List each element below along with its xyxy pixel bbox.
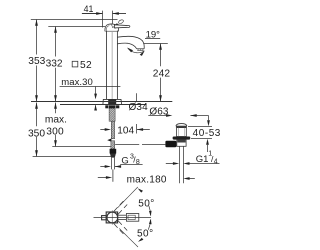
centerline bbox=[94, 217, 152, 219]
svg-text:40-53: 40-53 bbox=[193, 128, 221, 139]
upper 50 ray bbox=[118, 187, 138, 208]
svg-text:300: 300 bbox=[46, 126, 64, 137]
drain depth arrow bbox=[189, 178, 195, 180]
svg-text:19°: 19° bbox=[146, 29, 161, 40]
svg-text:G1: G1 bbox=[196, 154, 209, 165]
threaded shank bbox=[109, 108, 115, 121]
handle stub bbox=[102, 216, 107, 220]
svg-text:max.: max. bbox=[45, 115, 67, 126]
svg-text:104: 104 bbox=[117, 126, 134, 137]
ghost spout lower (dashed) bbox=[114, 221, 128, 234]
vertical centerline bbox=[111, 210, 113, 224]
svg-text:Ø63: Ø63 bbox=[149, 106, 169, 117]
svg-text:max.180: max.180 bbox=[127, 174, 167, 185]
body circle bbox=[107, 212, 118, 223]
svg-text:Ø34: Ø34 bbox=[129, 102, 149, 113]
escutcheon base bbox=[103, 99, 122, 104]
square symbol for 52 bbox=[72, 61, 78, 67]
svg-text:max.30: max.30 bbox=[61, 77, 93, 88]
faucet body bbox=[107, 31, 118, 100]
hose connector nut bbox=[110, 149, 117, 158]
svg-text:353: 353 bbox=[28, 56, 45, 67]
svg-text:52: 52 bbox=[80, 60, 92, 71]
lever handle bbox=[114, 25, 129, 28]
lower 50 ray bbox=[119, 229, 138, 248]
drain tailpipe bbox=[180, 146, 184, 183]
svg-text:332: 332 bbox=[46, 58, 63, 69]
drain flange bbox=[173, 137, 191, 140]
spout bbox=[117, 36, 144, 50]
drain cap bbox=[176, 124, 187, 128]
square base plate bbox=[106, 212, 117, 223]
svg-text:50°: 50° bbox=[138, 199, 155, 210]
pop-up rod knob bbox=[165, 141, 176, 148]
threaded rod bbox=[111, 121, 114, 139]
svg-text:G: G bbox=[121, 155, 128, 166]
deck line lower bbox=[60, 104, 147, 106]
svg-text:41: 41 bbox=[84, 4, 94, 14]
rod lower hatched segment bbox=[111, 141, 115, 149]
supply hoses bbox=[112, 158, 115, 182]
pop-up rod horizontal bbox=[115, 144, 165, 146]
svg-text:8: 8 bbox=[136, 159, 140, 166]
mounting nut bbox=[105, 105, 119, 108]
svg-text:4: 4 bbox=[214, 158, 218, 165]
upper swivel arc bbox=[149, 206, 151, 215]
lever knob circle bbox=[118, 19, 124, 24]
deck line upper bbox=[31, 101, 172, 103]
spout top view bbox=[118, 214, 139, 222]
lower swivel arc bbox=[148, 220, 151, 230]
rod coupling arrow bbox=[107, 139, 111, 142]
faucet head dome bbox=[105, 24, 119, 31]
svg-text:242: 242 bbox=[153, 68, 171, 79]
lever pivot wedge bbox=[113, 23, 119, 28]
ghost spout upper (dashed) bbox=[114, 201, 128, 214]
svg-text:350: 350 bbox=[28, 128, 45, 139]
drain lower body bbox=[177, 140, 186, 147]
drain upper body bbox=[177, 128, 187, 137]
svg-text:50°: 50° bbox=[137, 228, 154, 239]
